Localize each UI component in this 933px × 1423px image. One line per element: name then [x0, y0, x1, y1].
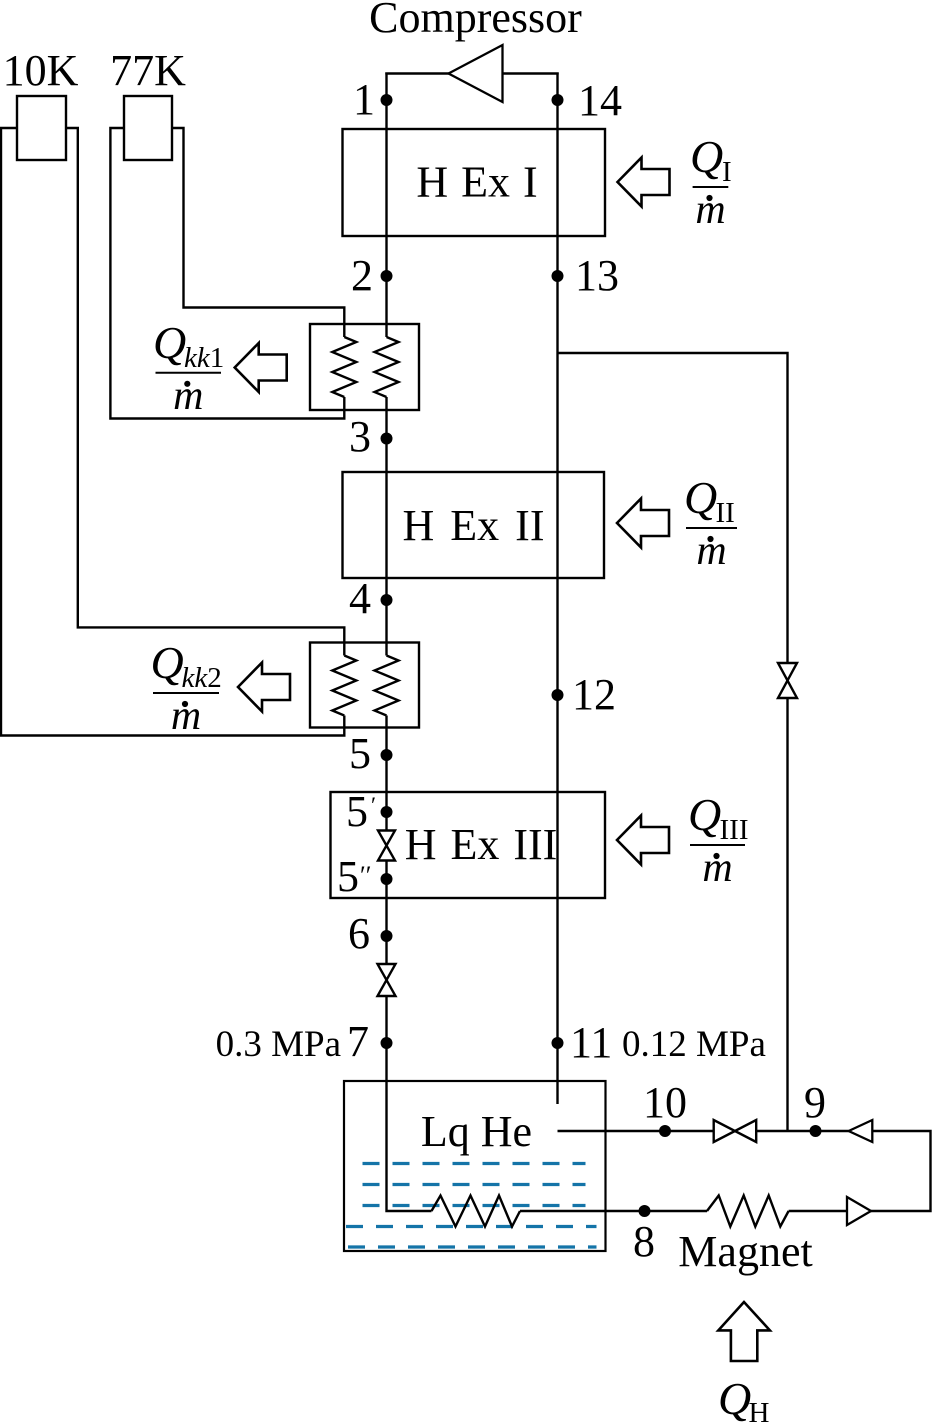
node 5''	[381, 873, 393, 885]
node 2	[381, 270, 393, 282]
svg-text:14: 14	[578, 76, 622, 125]
svg-text:Q: Q	[688, 789, 721, 840]
svg-text:12: 12	[572, 670, 616, 719]
heat exchanger H Ex III box	[331, 792, 606, 898]
Qkk1 heat exchanger box	[310, 324, 419, 410]
svg-text:Lq He: Lq He	[421, 1107, 532, 1156]
label fraction Q_I over m-dot	[690, 131, 732, 233]
svg-text:Q: Q	[151, 637, 184, 688]
liquid level dash line 1	[363, 1162, 586, 1165]
svg-text:77K: 77K	[110, 46, 186, 95]
svg-text:m: m	[702, 845, 732, 891]
svg-text:2: 2	[351, 251, 373, 300]
liquid level dash line 5	[348, 1245, 597, 1248]
77K cryocooler tube left wall / return line to Qkk1 coil bottom	[110, 128, 344, 419]
heat exchanger H Ex I box	[343, 129, 606, 236]
svg-text:5: 5	[346, 787, 368, 836]
wire left stream: node 1 to HX coil 1 top (through H Ex I)	[385, 73, 387, 338]
check valve CV2 (right-pointing triangle)	[847, 1197, 871, 1225]
block arrow for Q_kk1 heat removal	[235, 343, 287, 392]
svg-text:m: m	[696, 528, 726, 574]
liquid level dash line 4	[346, 1225, 597, 1228]
label Q_H	[718, 1373, 770, 1423]
valve V2 (JT expansion valve below node 6)	[378, 964, 396, 996]
node 3	[381, 433, 393, 445]
node 4	[381, 594, 393, 606]
block arrow for Q_III heat input	[617, 816, 669, 865]
HX coil 2 right zigzag (left stream through Qkk2 exchanger)	[375, 656, 399, 716]
wire compressor suction (node 1 to compressor inlet)	[387, 74, 449, 75]
valve V4 (horizontal bowtie between nodes 10 and 9)	[714, 1120, 757, 1142]
node 8	[639, 1205, 651, 1217]
svg-text:1: 1	[353, 75, 375, 124]
liquid level dash line 3	[363, 1204, 586, 1207]
wire compressor discharge (compressor outlet to node 14)	[503, 74, 558, 75]
10K cryocooler tube left wall / return line to Qkk2 coil bottom	[1, 128, 344, 736]
HX coil 2 left zigzag (10K loop side)	[332, 656, 356, 716]
label fraction Q_II over m-dot	[684, 472, 737, 574]
svg-text:0.12 MPa: 0.12 MPa	[622, 1024, 766, 1065]
svg-text:0.3 MPa: 0.3 MPa	[216, 1024, 341, 1065]
svg-text:kk2: kk2	[182, 662, 222, 694]
svg-text:m: m	[171, 693, 201, 739]
svg-text:6: 6	[348, 909, 370, 958]
HX coil 1 left zigzag (77K loop side)	[332, 337, 356, 397]
block arrow for Q_I heat input	[618, 158, 670, 207]
wire left stream: node 5'' to valve V2 top	[385, 861, 387, 965]
wire left stream: HX coil 2 bottom to JT valve V1 top	[385, 716, 387, 831]
valve V3 (on far-right bypass line)	[778, 663, 797, 698]
svg-text:5: 5	[349, 729, 371, 778]
svg-text:9: 9	[804, 1078, 826, 1127]
wire right stream: node 14 down into tank vapor space	[556, 73, 558, 1105]
svg-text:Q: Q	[684, 472, 717, 523]
svg-text:Q: Q	[690, 131, 723, 182]
svg-text:4: 4	[349, 574, 371, 623]
77K cryocooler tube right wall / supply line to Qkk1 coil top	[172, 128, 344, 337]
svg-text:H Ex II: H Ex II	[403, 501, 545, 550]
compressor symbol (left-pointing triangle)	[449, 45, 503, 102]
wire left stream: valve V2 to tank coil inlet	[387, 996, 432, 1211]
Qkk2 heat exchanger box	[310, 643, 419, 728]
node 14	[552, 94, 564, 106]
svg-text:H Ex III: H Ex III	[405, 820, 558, 869]
svg-text:kk1: kk1	[184, 342, 224, 374]
valve V1 (between nodes 5' and 5'' inside H Ex III)	[378, 831, 395, 861]
10K cold head box	[17, 96, 66, 160]
node 10	[659, 1125, 671, 1137]
svg-text:′′: ′′	[360, 861, 371, 890]
label fraction Q_kk2 over m-dot	[151, 637, 222, 739]
node 5'	[381, 806, 393, 818]
label fraction Q_kk1 over m-dot	[153, 317, 224, 419]
svg-text:Magnet: Magnet	[678, 1227, 812, 1276]
node 7	[381, 1037, 393, 1049]
magnet resistor zigzag	[707, 1196, 789, 1227]
liquid level dash line 2	[363, 1183, 586, 1186]
wire magnet to check valve CV2	[789, 1210, 847, 1212]
wire left stream: HX coil 1 bottom to HX coil 2 top (through H Ex II)	[385, 397, 387, 656]
wire bypass: valve V3 down to node 9 junction	[786, 698, 788, 1131]
label fraction Q_III over m-dot	[688, 789, 748, 891]
node 1	[381, 94, 393, 106]
svg-text:′: ′	[371, 793, 376, 818]
node 6	[381, 930, 393, 942]
node 13	[552, 270, 564, 282]
wire tank coil outlet to node 8 and magnet resistor	[520, 1210, 707, 1212]
wire valve V4 to Lq He tank vapor space (node 10)	[558, 1130, 714, 1132]
block arrow for Q_H heat input to magnet (up-pointing)	[718, 1302, 770, 1361]
svg-text:3: 3	[349, 412, 371, 461]
10K cryocooler tube right wall / supply line to Qkk2 coil top	[66, 128, 344, 656]
HX coil 1 right zigzag (left stream through Qkk1 exchanger)	[375, 337, 399, 397]
wire bypass branch: right stream to far-right valve V3	[558, 353, 788, 663]
wire node 9 to valve V4	[756, 1130, 848, 1132]
block arrow for Q_II heat input	[617, 499, 669, 548]
node 12	[552, 689, 564, 701]
svg-text:10K: 10K	[3, 46, 79, 95]
svg-text:7: 7	[347, 1017, 369, 1066]
Lq He tank	[344, 1081, 606, 1251]
svg-text:m: m	[695, 187, 725, 233]
svg-text:I: I	[722, 156, 732, 188]
liquid helium level dashed lines	[346, 1164, 597, 1248]
svg-text:8: 8	[633, 1217, 655, 1266]
tank heater coil zigzag inside Lq He bath	[432, 1196, 521, 1227]
svg-text:11: 11	[570, 1018, 612, 1067]
svg-text:Q: Q	[153, 317, 186, 368]
wire check valve CV2 to right corner, up to node 9 line	[871, 1131, 931, 1211]
svg-text:5: 5	[337, 852, 359, 901]
77K cold head box	[124, 96, 172, 160]
node 9	[810, 1125, 822, 1137]
check valve CV1 (left-pointing triangle)	[849, 1120, 873, 1142]
heat exchanger H Ex II box	[343, 472, 605, 578]
svg-text:10: 10	[643, 1078, 687, 1127]
svg-text:13: 13	[575, 251, 619, 300]
node 5	[381, 749, 393, 761]
svg-text:m: m	[173, 373, 203, 419]
svg-text:H: H	[749, 1397, 770, 1423]
svg-text:III: III	[720, 814, 749, 846]
svg-text:H Ex I: H Ex I	[416, 158, 537, 207]
block arrow for Q_kk2 heat removal	[238, 663, 290, 712]
node 11	[552, 1037, 564, 1049]
svg-text:Compressor: Compressor	[369, 0, 582, 42]
svg-text:II: II	[716, 497, 735, 529]
svg-text:Q: Q	[718, 1373, 751, 1423]
